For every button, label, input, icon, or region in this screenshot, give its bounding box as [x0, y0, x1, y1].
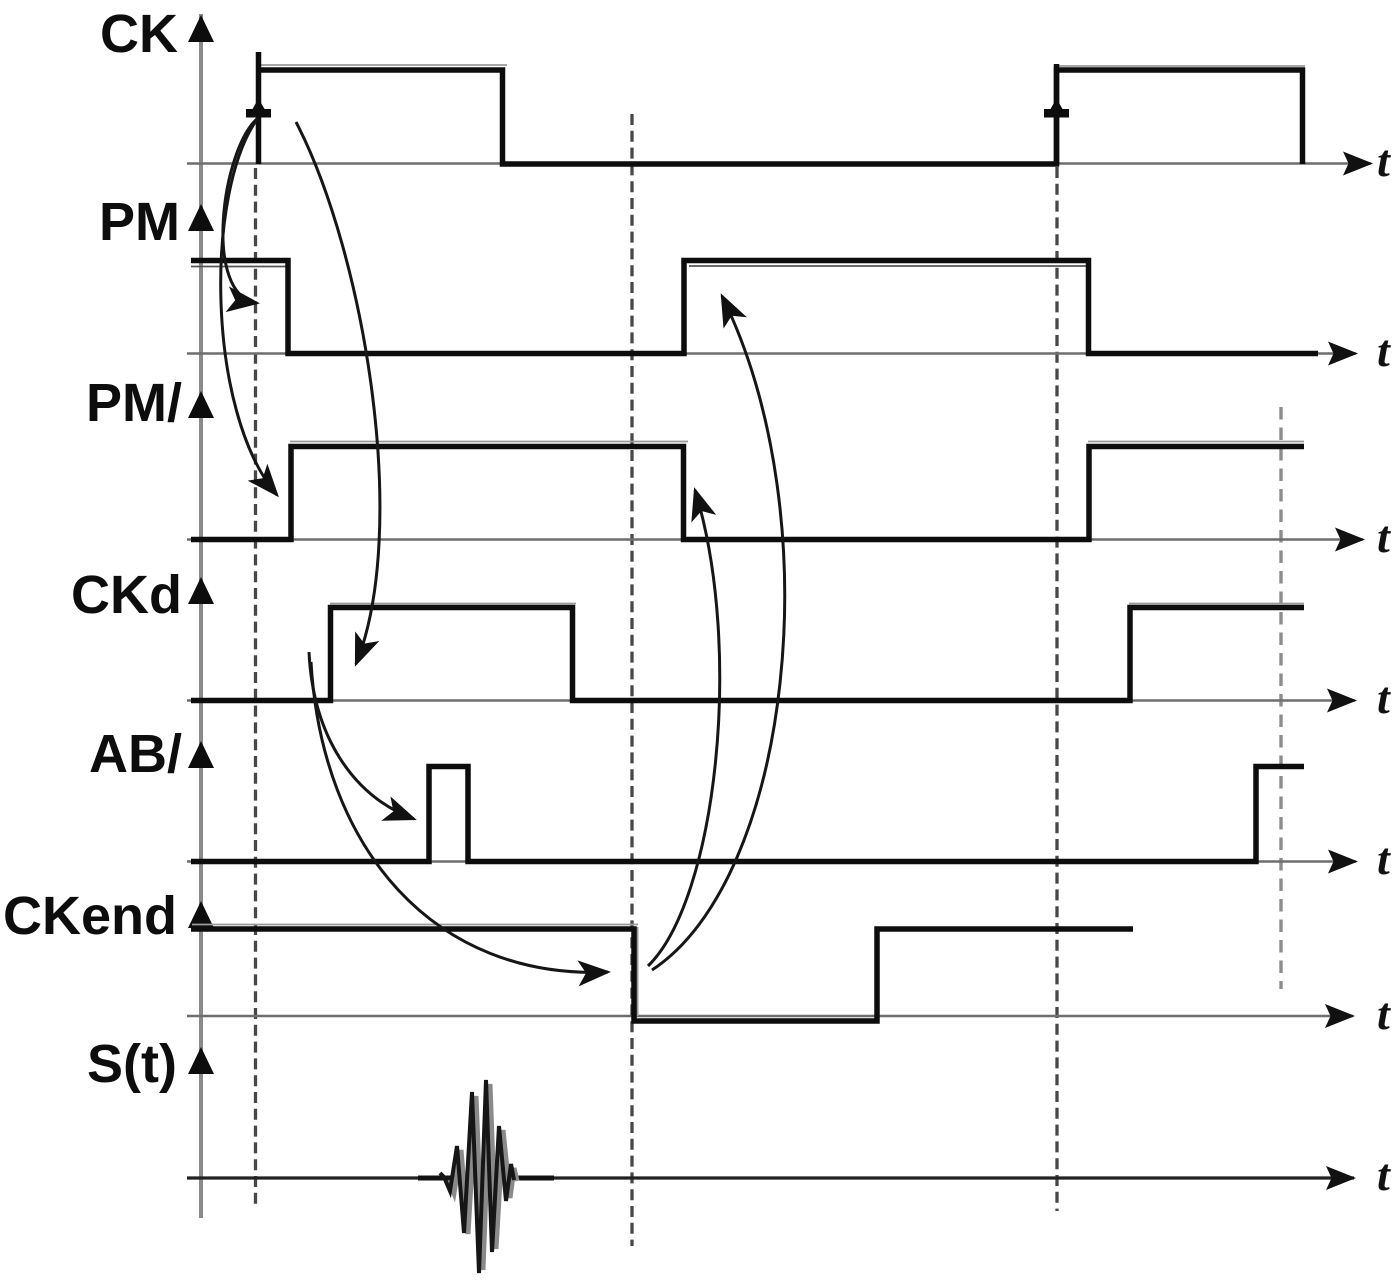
PM/ waveform: [191, 447, 1304, 540]
AB/ waveform: [191, 767, 1304, 862]
CK time axis: [187, 162, 1371, 165]
PM/ axis up-arrowhead: [188, 391, 214, 418]
svg-text:t: t: [1377, 672, 1391, 723]
CKend axis up-arrowhead: [188, 901, 214, 928]
PM high-level guide line pulse2: [689, 265, 1086, 267]
svg-text:t: t: [1377, 833, 1391, 884]
dashed timing line t1 (x=632): [630, 114, 633, 1246]
CKend high-level guide line: [192, 924, 638, 926]
arrow: CKend fall to PM/ fall: [648, 490, 720, 966]
PM axis up-arrowhead: [188, 204, 214, 231]
svg-text:t: t: [1377, 135, 1391, 186]
arrow: CKend fall to PM rise: [652, 296, 785, 970]
CK rising edge up-tick arrow 1: [246, 99, 271, 118]
svg-text:PM: PM: [99, 192, 180, 252]
S(t) axis up-arrowhead: [188, 1047, 214, 1074]
PM/ high-level guide line pulse1: [290, 441, 688, 443]
svg-text:t: t: [1377, 325, 1391, 376]
PM waveform: [191, 261, 1318, 354]
AB/ axis up-arrowhead: [188, 741, 214, 768]
S(t) wavelet burst (main): [440, 1080, 514, 1273]
CK rising edge up-tick arrow 2: [1044, 99, 1069, 118]
svg-text:CKd: CKd: [71, 565, 182, 625]
arrow: CKd rise to AB/ pulse: [309, 652, 414, 819]
arrow: CK rise 1 to PM fall: [223, 118, 258, 303]
svg-text:CKend: CKend: [3, 886, 177, 946]
svg-text:t: t: [1377, 988, 1391, 1039]
CKend waveform: [191, 929, 1133, 1021]
CK high-level guide line pulse1: [257, 64, 507, 66]
svg-text:S(t): S(t): [87, 1034, 177, 1094]
dashed timing line t0 (x=255): [254, 168, 257, 1208]
arrow: CKd rise to CKend fall: [311, 662, 608, 972]
CK waveform: [259, 70, 1303, 164]
CKd high-level guide line pulse2: [1129, 603, 1304, 605]
svg-text:CK: CK: [100, 4, 178, 64]
CK rising edge marker line 2: [1054, 64, 1060, 164]
CK high-level guide line pulse2: [1055, 65, 1305, 67]
PM/ high-level guide line pulse2: [1088, 441, 1304, 443]
dashed timing line t3 (gray, x=1281): [1279, 407, 1282, 989]
CKd high-level guide line pulse1: [330, 603, 576, 605]
svg-text:t: t: [1377, 1149, 1391, 1200]
svg-text:AB/: AB/: [89, 724, 182, 784]
CKd axis up-arrowhead: [188, 577, 214, 604]
CKend fall guide line: [637, 927, 639, 1016]
AB/ time axis: [187, 860, 1356, 863]
S(t) wavelet burst (gray echo): [449, 1084, 517, 1270]
CKend time axis: [187, 1015, 1353, 1018]
PM time axis: [187, 352, 1356, 355]
PM high-level guide line pulse1: [191, 266, 286, 268]
CKd waveform: [191, 608, 1304, 701]
CKd time axis: [187, 699, 1355, 702]
svg-text:PM/: PM/: [86, 373, 182, 433]
CK axis up-arrowhead: [188, 15, 214, 42]
PM/ time axis: [187, 538, 1363, 541]
arrow: CK rise 1 to PM/ rise: [221, 118, 277, 495]
dashed timing line t2 (x=1057): [1055, 167, 1058, 1211]
vertical signal axis (gray): [199, 14, 203, 1218]
S(t) time axis: [187, 1176, 1354, 1179]
arrow: CK pulse to CKd rise: [296, 122, 380, 664]
S(t) baseline thick segment under burst: [418, 1176, 554, 1181]
svg-text:t: t: [1377, 511, 1391, 562]
CK rising edge marker line 1: [256, 52, 262, 164]
